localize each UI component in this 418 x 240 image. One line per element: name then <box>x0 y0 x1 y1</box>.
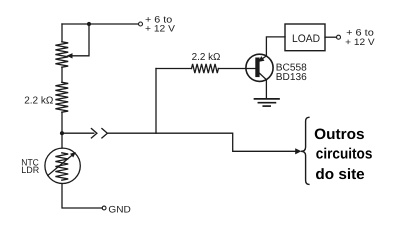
svg-text:circuitos: circuitos <box>316 145 373 162</box>
svg-text:+ 12 V: + 12 V <box>145 23 176 33</box>
svg-text:LOAD: LOAD <box>292 33 320 45</box>
svg-text:GND: GND <box>108 204 131 215</box>
svg-text:LDR: LDR <box>21 165 39 175</box>
svg-text:do site: do site <box>315 166 364 183</box>
svg-text:2.2 kΩ: 2.2 kΩ <box>192 52 221 63</box>
svg-text:+ 6 to: + 6 to <box>346 27 374 37</box>
svg-text:2.2 kΩ: 2.2 kΩ <box>24 95 54 106</box>
svg-text:BD136: BD136 <box>276 72 307 83</box>
svg-text:+ 12 V: + 12 V <box>345 37 375 47</box>
svg-text:Outros: Outros <box>314 126 364 143</box>
